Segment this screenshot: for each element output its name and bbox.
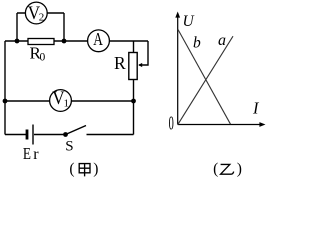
wire V1 row horizontal [5,100,134,102]
wire battery to switch [34,134,66,136]
label (乙) caption [213,161,242,178]
U axis arrowhead [175,12,180,18]
voltmeter V1 [50,87,72,111]
svg-text:): ) [93,161,98,178]
svg-text:R: R [114,53,126,73]
switch S pivot dot [63,132,68,137]
svg-text:0: 0 [40,51,46,63]
svg-text:b: b [193,35,201,52]
wiper arrowhead [138,63,142,67]
wire V2 branch horizontal [17,12,64,14]
svg-text:A: A [93,30,103,49]
svg-text:0: 0 [169,113,174,134]
graph U axis [177,16,179,125]
wire rheostat bottom vertical [133,80,135,135]
battery E r positive plate (long thin) [32,125,34,145]
voltmeter V2 [25,2,47,24]
glyph 乙 drawn as strokes [221,164,234,174]
I axis arrowhead [259,122,265,127]
wire top horizontal main [5,40,148,42]
wire bottom left segment [5,134,26,136]
wire V2 branch right vertical [63,13,65,41]
graph I axis [178,124,261,126]
svg-text:1: 1 [63,97,69,109]
label (甲) caption [69,161,98,178]
glyph 甲 drawn as strokes [79,164,90,177]
rheostat R body [129,53,137,80]
svg-text:U: U [183,13,196,30]
wire left vertical [4,41,6,135]
ammeter A [88,30,110,52]
svg-text:(: ( [213,161,218,178]
wire rheostat top stub [133,41,135,53]
node junction dot rheostat/V1 [131,99,136,104]
wire right vertical to wiper [139,41,148,65]
svg-text:(: ( [69,161,74,178]
graph line a [178,36,233,124]
svg-text:): ) [237,161,242,178]
svg-text:S: S [65,139,73,155]
battery E r negative plate (short thick) [26,130,29,140]
switch S lever [66,126,87,135]
svg-text:a: a [218,32,226,49]
svg-text:r: r [33,146,39,163]
graph line b [178,30,231,125]
svg-text:E: E [23,144,31,163]
resistor R0 [28,39,54,45]
node junction dot left V1 [3,99,8,104]
svg-text:2: 2 [39,12,45,24]
node junction dot right of R0 [62,39,67,44]
wire V2 branch left vertical [16,13,18,41]
node junction dot left of R0 [15,39,20,44]
wire switch to right corner [87,134,134,136]
